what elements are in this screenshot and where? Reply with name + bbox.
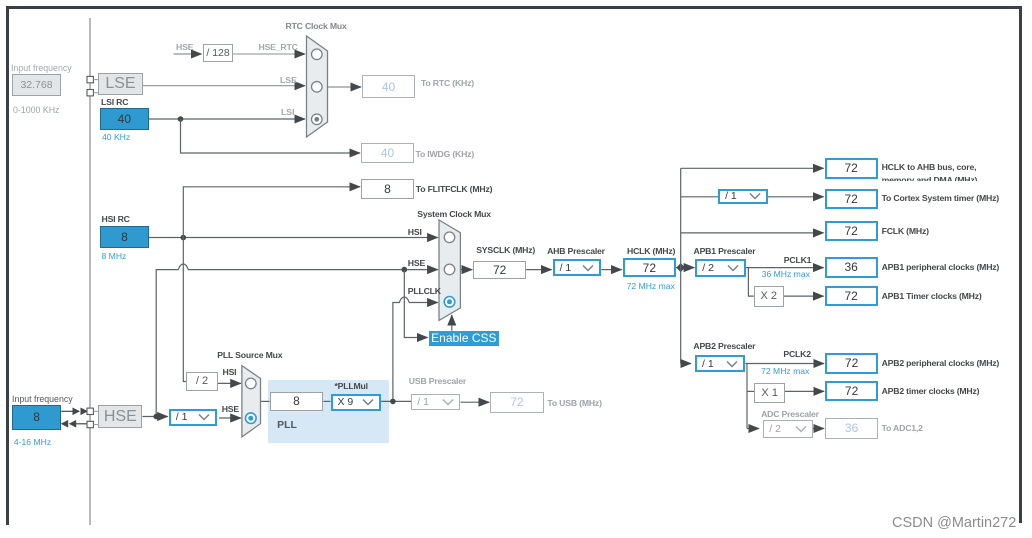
wire bus to HCLK-AHB box — [681, 167, 824, 169]
label RTC Clock Mux — [286, 21, 347, 31]
wire APB2 branch vertical — [746, 364, 748, 429]
box To USB 72 — [490, 392, 543, 413]
label SYSCLK (MHz) — [476, 245, 535, 255]
wire system mux output to SYSCLK — [460, 269, 472, 271]
wire /1 to PLL source mux HSE — [219, 417, 241, 419]
wire PLLCLK riser to system mux — [393, 297, 438, 401]
label APB2 timer clocks (MHz) — [882, 386, 980, 396]
label 40 KHz — [102, 132, 130, 142]
wire branch to X1 — [747, 390, 754, 392]
wire HCLK distribution bus — [680, 168, 682, 363]
label PLL Source Mux — [217, 350, 282, 360]
wire X2 to APB1 timer box — [784, 295, 824, 297]
box APB1 timer 72 — [825, 286, 878, 306]
wire X1 to APB2 timer box — [785, 390, 824, 392]
wire bus to FCLK box — [681, 232, 824, 234]
box PLL input 8 — [270, 392, 324, 411]
dropdown Cortex prescaler /1 — [718, 189, 768, 205]
node LSI junction — [178, 116, 184, 122]
box HSI RC 8 — [100, 226, 149, 248]
dropdown PLL HSE predivider /1 — [169, 409, 217, 426]
dropdown PLLMul X9 — [331, 394, 382, 411]
label 72 MHz max (HCLK) — [627, 281, 675, 291]
wire branch to X2 — [748, 268, 753, 297]
label HSE (PLL mux input) — [222, 404, 239, 414]
dropdown USB prescaler /1 — [411, 394, 460, 410]
label To IWDG (KHz) — [416, 149, 475, 159]
wire LSE to RTC mux — [143, 85, 305, 87]
wire cortex /1 to cortex timer box — [768, 196, 824, 198]
mux RTC Clock Mux — [307, 36, 328, 137]
dropdown ADC prescaler /2 — [763, 420, 813, 437]
node HSE pin squares — [87, 408, 93, 414]
box HCLK to AHB 72 — [825, 158, 878, 178]
mux PLL Source Mux — [242, 366, 261, 437]
label HSI (sysmux input) — [408, 227, 422, 237]
node HSI junction — [181, 235, 187, 241]
box FCLK 72 — [825, 221, 878, 241]
node HSE output junction — [153, 414, 159, 420]
label HCLK to AHB bus core memory and DMA — [882, 161, 978, 180]
wire HSE to input freq double arrows left — [75, 423, 88, 425]
wire HSI to FLITFCLK — [183, 187, 360, 238]
label PLL — [277, 419, 297, 431]
dropdown AHB prescaler /1 — [553, 259, 602, 277]
box HCLK 72 — [623, 258, 676, 277]
box To ADC 36 — [825, 418, 878, 438]
wire USB prescaler to USB box — [461, 401, 490, 403]
wire ADC prescaler to ADC box — [813, 428, 824, 430]
wire HSE to /128 — [174, 53, 202, 55]
label FCLK (MHz) — [882, 226, 929, 236]
box SYSCLK 72 — [473, 261, 526, 280]
label To RTC (KHz) — [421, 78, 474, 88]
wire /2 to PLL source mux HSI — [218, 382, 241, 384]
button Enable CSS — [429, 331, 500, 346]
label 4-16 MHz — [14, 437, 51, 447]
label PCLK1 — [784, 255, 811, 265]
node PLLCLK junction — [390, 399, 396, 405]
label 36 MHz max — [762, 269, 810, 279]
label HSE (top, to /128) — [176, 42, 193, 52]
wire APB1 prescaler to APB1 peripheral box — [746, 267, 824, 269]
wire LSI to IWDG — [181, 119, 361, 153]
label Input frequency (HSE) — [12, 394, 73, 404]
box /128 divider — [203, 44, 234, 62]
wire bus bottom to APB2 prescaler — [681, 363, 691, 365]
label Input frequency (LSE) — [11, 63, 72, 73]
box To RTC value 40 — [362, 75, 415, 99]
label APB1 Prescaler — [694, 246, 756, 256]
label To Cortex System timer (MHz) — [882, 193, 999, 203]
wire X9 to USB prescaler — [381, 400, 411, 402]
node LSE pin squares — [87, 76, 93, 82]
wire 8 box to X9 — [323, 400, 330, 402]
label APB2 Prescaler — [693, 341, 755, 351]
label HSI RC — [102, 214, 130, 224]
label LSI (mux input) — [281, 107, 295, 117]
label HSE_RTC — [259, 42, 298, 52]
wire bus to cortex /1 prescaler — [681, 196, 718, 198]
watermark CSDN @Martin272 — [892, 515, 1016, 531]
wire to Enable CSS — [404, 270, 427, 338]
wire HSE riser with hop to system mux — [156, 264, 438, 417]
node HSE junction near system mux — [402, 267, 408, 273]
label To ADC1,2 — [882, 423, 923, 433]
wire HCLK to APB1 prescaler with diamond junction — [676, 267, 694, 269]
box To IWDG value 40 — [361, 143, 414, 163]
wire LSI to RTC mux — [149, 118, 305, 120]
label *PLLMul — [335, 381, 368, 391]
label To FLITFCLK (MHz) — [416, 184, 493, 194]
box /2 divider (HSI to PLL) — [186, 372, 217, 391]
wire input freq to HSE double arrows right — [61, 410, 73, 412]
mux System Clock Mux — [439, 220, 460, 320]
label To USB (MHz) — [547, 398, 601, 408]
PLL region background — [268, 380, 388, 443]
label PCLK2 — [783, 349, 810, 359]
box X2 multiplier — [754, 286, 784, 307]
wire HSI down to /2 PLL input — [183, 238, 186, 382]
wire HSI RC output to system mux — [149, 237, 438, 239]
label HSE (sysmux input) — [408, 258, 425, 268]
box HSE — [98, 405, 142, 429]
box LSI RC 40 — [100, 108, 150, 130]
label 0-1000 KHz — [13, 105, 59, 115]
node diamond junction — [676, 263, 685, 272]
label 72 MHz max (PCLK2) — [761, 366, 809, 376]
wire PLL mux output to PLL 8 box — [261, 400, 270, 402]
box APB1 peripheral 36 — [825, 257, 878, 277]
label LSE (mux input) — [280, 75, 297, 85]
label USB Prescaler — [409, 376, 466, 386]
label PLLCLK (sysmux input) — [408, 286, 441, 296]
label ADC Prescaler — [761, 409, 819, 419]
label HCLK (MHz) — [627, 246, 675, 256]
label 8 MHz — [102, 251, 127, 261]
box APB2 timer 72 — [825, 381, 878, 401]
dropdown APB1 prescaler /2 — [695, 259, 746, 277]
box LSE input 32.768 — [12, 74, 61, 97]
box To FLITFCLK value 8 — [361, 179, 414, 199]
label APB2 peripheral clocks (MHz) — [882, 358, 1000, 368]
wire HSE box to /1 — [142, 416, 167, 418]
label AHB Prescaler — [547, 246, 605, 256]
wire RTC mux output to To-RTC box — [328, 86, 362, 88]
dropdown APB2 prescaler /1 — [695, 355, 745, 372]
box X1 multiplier — [754, 383, 785, 403]
main vertical bus — [89, 18, 91, 525]
label LSI RC — [101, 97, 128, 107]
box LSE — [98, 73, 143, 95]
wire AHB prescaler to HCLK — [601, 269, 621, 271]
label System Clock Mux — [417, 209, 491, 219]
box Cortex timer 72 — [825, 189, 878, 209]
wire SYSCLK to AHB prescaler — [526, 269, 552, 271]
wire branch to ADC prescaler — [747, 428, 759, 430]
label APB1 Timer clocks (MHz) — [882, 291, 982, 301]
wire APB2 prescaler to APB2 peripheral box — [745, 363, 824, 365]
wire Enable CSS up arrow into mux — [451, 315, 453, 331]
wire /128 to RTC mux HSE_RTC input — [233, 53, 305, 55]
box APB2 peripheral 72 — [825, 353, 878, 373]
label HSI (PLL mux input) — [223, 367, 237, 377]
label APB1 peripheral clocks (MHz) — [882, 262, 1000, 272]
box HSE input 8 — [12, 405, 61, 430]
